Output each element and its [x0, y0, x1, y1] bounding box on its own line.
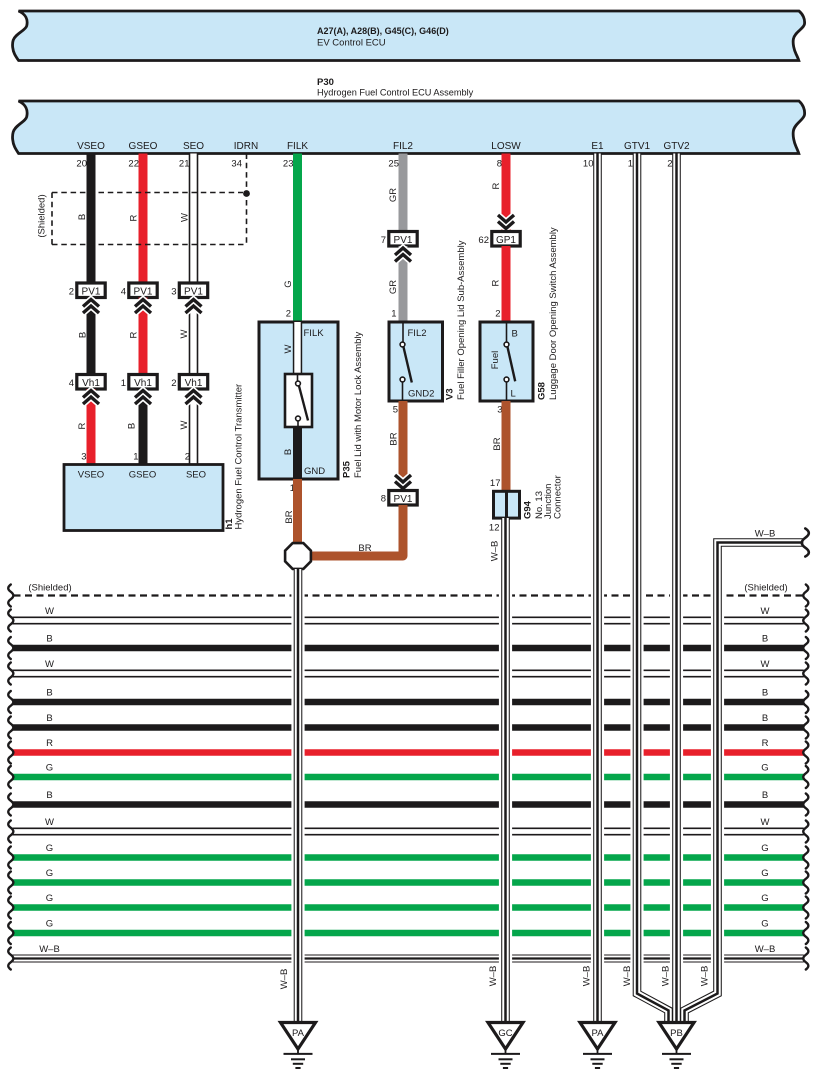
ground PA [580, 1023, 615, 1069]
svg-text:21: 21 [179, 159, 190, 170]
svg-text:GSEO: GSEO [129, 141, 158, 152]
bus wire W at y=831.5 [13, 828, 804, 836]
shield chevrons above PV1 8 [395, 482, 411, 489]
white gaps where vertical wires cross bus [291, 589, 724, 965]
svg-text:R: R [46, 738, 53, 749]
svg-text:LOSW: LOSW [491, 141, 521, 152]
svg-text:E1: E1 [591, 141, 604, 152]
svg-text:P35: P35 [342, 460, 353, 478]
svg-text:VSEO: VSEO [77, 141, 105, 152]
svg-text:B: B [46, 688, 52, 699]
svg-text:20: 20 [76, 159, 87, 170]
bus wire G at y=933 [13, 930, 804, 937]
svg-text:3: 3 [171, 287, 176, 298]
svg-text:B: B [77, 214, 88, 220]
svg-text:P30: P30 [317, 77, 334, 88]
svg-text:(Shielded): (Shielded) [744, 583, 787, 594]
svg-text:2: 2 [171, 378, 176, 389]
svg-text:W: W [179, 329, 190, 338]
svg-text:B: B [127, 423, 138, 429]
svg-text:W–B: W–B [622, 966, 633, 987]
wire GSEO R from P30 pin 22 to PV1 [139, 154, 148, 284]
svg-text:W: W [179, 420, 190, 429]
ground PB [659, 1023, 694, 1069]
switch in P35 (motor lock) [285, 374, 312, 427]
wire VSEO R from Vh1 to h1 [87, 389, 96, 465]
svg-text:G: G [283, 280, 294, 287]
bus wire W-B at y=958.5 [13, 955, 804, 963]
svg-text:GR: GR [388, 188, 399, 202]
svg-text:V3: V3 [445, 388, 456, 400]
svg-text:22: 22 [128, 159, 139, 170]
svg-text:BR: BR [389, 432, 400, 445]
svg-text:G: G [46, 843, 53, 854]
svg-text:W–B: W–B [488, 966, 499, 987]
svg-text:R: R [77, 422, 88, 429]
ground PA [281, 1023, 316, 1069]
ground GC [488, 1023, 523, 1069]
connector PV1 (FIL2) [389, 232, 417, 247]
svg-text:GR: GR [388, 280, 399, 294]
svg-text:GP1: GP1 [496, 235, 516, 246]
break marks left side of bus [8, 585, 13, 970]
svg-text:1: 1 [133, 452, 138, 463]
svg-text:G: G [761, 893, 768, 904]
connector PV1 (GSEO) [129, 283, 157, 298]
bus wire B at y=702 [13, 699, 804, 706]
connector PV1 (BR) [389, 491, 417, 506]
wire W-B from P30 E1 pin 10 to ground PA [593, 154, 602, 1024]
svg-text:W: W [283, 344, 294, 353]
svg-text:23: 23 [283, 159, 294, 170]
ECU banner A27/A28/G45/G46 EV Control ECU [13, 11, 805, 61]
svg-text:8: 8 [497, 159, 502, 170]
connector Vh1 (SEO) [179, 375, 207, 390]
svg-text:R: R [129, 331, 140, 338]
svg-text:A27(A), A28(B), G45(C), G46(D): A27(A), A28(B), G45(C), G46(D) [317, 26, 449, 36]
wire B inside P35 from switch to GND [293, 427, 302, 479]
svg-text:FILK: FILK [304, 328, 325, 339]
shield chevrons below PV1 boxes [83, 300, 99, 307]
svg-text:G: G [761, 763, 768, 774]
wire GSEO B from Vh1 to h1 [139, 389, 148, 465]
svg-text:L: L [511, 389, 516, 400]
svg-text:G58: G58 [537, 382, 548, 400]
wire FIL2 GR from P30 pin 25 to PV1 [399, 154, 408, 232]
bus wire W at y=620.5 [13, 617, 804, 625]
svg-text:2: 2 [667, 159, 672, 170]
svg-text:2: 2 [286, 309, 291, 320]
svg-text:GSEO: GSEO [129, 470, 156, 481]
svg-text:34: 34 [231, 159, 242, 170]
svg-text:PA: PA [292, 1028, 305, 1039]
svg-text:B: B [78, 332, 89, 338]
bus wire G at y=857.5 [13, 854, 804, 861]
wire SEO W from PV1 to Vh1 [189, 298, 199, 375]
svg-text:2: 2 [185, 452, 190, 463]
wire LOSW R from P30 pin 8 to GP1 [502, 154, 511, 215]
bus wire B at y=804.5 [13, 801, 804, 808]
svg-text:Hydrogen Fuel Control ECU Asse: Hydrogen Fuel Control ECU Assembly [317, 88, 474, 98]
svg-text:GND2: GND2 [408, 389, 434, 400]
svg-text:Fuel Lid with Motor Lock Assem: Fuel Lid with Motor Lock Assembly [353, 331, 364, 478]
svg-text:PA: PA [592, 1028, 605, 1039]
svg-text:62: 62 [478, 235, 489, 246]
svg-text:12: 12 [489, 523, 500, 534]
svg-text:W–B: W–B [490, 541, 501, 562]
junction node octagon splice [285, 543, 311, 569]
svg-text:W: W [180, 213, 191, 222]
svg-text:1: 1 [391, 309, 396, 320]
svg-text:(Shielded): (Shielded) [28, 583, 71, 594]
wire W-B from right harness to ground PB [685, 543, 804, 1024]
wire W-B from splice to ground PA [294, 569, 303, 1023]
bus wire R at y=752.5 [13, 749, 804, 756]
wire FIL2 GR from PV1 to V3 [399, 246, 408, 322]
svg-text:W–B: W–B [755, 944, 776, 955]
svg-text:G94: G94 [523, 500, 534, 519]
svg-text:3: 3 [81, 452, 86, 463]
wire LOSW R from GP1 to G58 [502, 246, 511, 322]
svg-text:PB: PB [670, 1028, 683, 1039]
wire W-B from P30 GTV2 pin 2 to ground PB [672, 154, 681, 1024]
bus wire B at y=727.5 [13, 724, 804, 731]
bus wire W at y=673.5 [13, 670, 804, 678]
svg-text:R: R [491, 279, 502, 286]
wire SEO W from Vh1 to h1 [189, 389, 199, 465]
svg-text:10: 10 [583, 159, 594, 170]
wire FILK G from P30 pin 23 to P35 [293, 154, 302, 323]
shield chevrons below Vh1 boxes [83, 391, 99, 398]
svg-text:FIL2: FIL2 [393, 141, 413, 152]
svg-text:B: B [46, 790, 52, 801]
svg-text:GND: GND [304, 466, 325, 477]
shield chevrons above GP1 [502, 214, 511, 232]
svg-text:G: G [46, 893, 53, 904]
svg-text:1: 1 [628, 159, 633, 170]
connector GP1 [492, 232, 520, 247]
component P35 Fuel Lid with Motor Lock Assembly [259, 322, 338, 479]
component V3 Fuel Filler Opening Lid Sub-Assembly [389, 322, 443, 401]
wire VSEO B from P30 pin 20 to PV1 [87, 154, 96, 284]
wire SEO W from P30 pin 21 to PV1 [189, 154, 199, 284]
wire W inside P35 [293, 322, 302, 378]
wire VSEO B from PV1 to Vh1 [87, 298, 96, 375]
wire W-B from P30 GTV1 pin 1 to ground PB [637, 154, 669, 1024]
svg-text:B: B [512, 329, 518, 340]
svg-text:2: 2 [69, 287, 74, 298]
svg-text:G: G [46, 763, 53, 774]
connector Vh1 (GSEO) [129, 375, 157, 390]
svg-text:W–B: W–B [755, 529, 776, 540]
svg-text:1: 1 [121, 378, 126, 389]
svg-text:SEO: SEO [183, 141, 204, 152]
label P30 Hydrogen Fuel Control ECU Assembly [317, 77, 474, 98]
svg-text:Fuel: Fuel [490, 351, 501, 369]
svg-text:Fuel Filler Opening Lid Sub-As: Fuel Filler Opening Lid Sub-Assembly [456, 240, 467, 400]
svg-text:GTV1: GTV1 [624, 141, 651, 152]
connector band P30 [13, 101, 805, 154]
wire BR from V3 to PV1 [399, 401, 408, 491]
svg-text:W: W [45, 606, 54, 617]
wire BR from P35 GND to junction node [293, 479, 302, 544]
wire BR from PV1 to junction node [310, 505, 403, 556]
svg-text:17: 17 [490, 478, 501, 489]
bus wire G at y=777 [13, 774, 804, 781]
wire W-B from G94 pin 12 to ground GC [501, 518, 510, 1023]
svg-text:R: R [762, 738, 769, 749]
svg-text:G: G [761, 868, 768, 879]
svg-text:GC: GC [498, 1028, 512, 1039]
svg-text:B: B [46, 634, 52, 645]
wire IDRN dashed drain [246, 154, 248, 245]
svg-text:EV Control ECU: EV Control ECU [317, 38, 386, 49]
connector PV1 (SEO) [179, 283, 207, 298]
svg-text:W: W [761, 817, 770, 828]
component h1 Hydrogen Fuel Control Transmitter [64, 465, 223, 531]
bus wire G at y=882.5 [13, 879, 804, 886]
pin numbers at P30 connector [76, 159, 672, 170]
bus wire B at y=648 [13, 645, 804, 652]
svg-text:5: 5 [393, 405, 398, 416]
connector PV1 (VSEO) [77, 283, 105, 298]
svg-text:8: 8 [381, 494, 386, 505]
svg-text:B: B [762, 713, 768, 724]
svg-text:W: W [45, 817, 54, 828]
svg-text:7: 7 [381, 235, 386, 246]
break marks right side of bus [803, 585, 808, 970]
svg-text:G: G [761, 843, 768, 854]
svg-text:R: R [491, 182, 502, 189]
svg-text:G: G [46, 919, 53, 930]
svg-text:SEO: SEO [186, 470, 206, 481]
svg-text:25: 25 [388, 159, 399, 170]
break mark right W-B wire [802, 529, 809, 557]
svg-text:FIL2: FIL2 [408, 328, 427, 339]
svg-text:W: W [761, 659, 770, 670]
svg-text:W–B: W–B [39, 944, 60, 955]
svg-text:W–B: W–B [582, 966, 593, 987]
node shield drain dot [243, 190, 250, 197]
svg-text:BR: BR [358, 543, 371, 554]
svg-text:4: 4 [121, 287, 126, 298]
svg-text:B: B [762, 634, 768, 645]
svg-text:B: B [46, 713, 52, 724]
wire BR from G58 to G94 [502, 401, 511, 491]
svg-text:B: B [762, 688, 768, 699]
svg-text:W–B: W–B [700, 966, 711, 987]
shield box around VSEO GSEO SEO wires [52, 193, 247, 245]
connector G94 No.13 junction connector [494, 491, 520, 518]
svg-text:Hydrogen Fuel Control Transmit: Hydrogen Fuel Control Transmitter [234, 384, 245, 530]
svg-text:G: G [46, 868, 53, 879]
svg-text:FILK: FILK [287, 141, 308, 152]
svg-text:IDRN: IDRN [234, 141, 258, 152]
svg-text:(Shielded): (Shielded) [37, 194, 48, 237]
component G58 Luggage Door Opening Switch Assembly [480, 322, 533, 401]
connector Vh1 (VSEO) [77, 375, 105, 390]
svg-text:G: G [761, 919, 768, 930]
svg-text:BR: BR [284, 510, 295, 523]
svg-text:W–B: W–B [661, 966, 672, 987]
svg-text:GTV2: GTV2 [663, 141, 690, 152]
svg-text:B: B [762, 790, 768, 801]
svg-text:B: B [283, 449, 294, 455]
svg-text:W–B: W–B [279, 969, 290, 990]
svg-text:Connector: Connector [553, 475, 564, 519]
svg-text:VSEO: VSEO [78, 470, 104, 481]
svg-text:Luggage Door Opening Switch As: Luggage Door Opening Switch Assembly [548, 227, 559, 400]
svg-text:BR: BR [492, 437, 503, 450]
svg-text:PV1: PV1 [394, 494, 413, 505]
svg-text:4: 4 [69, 378, 74, 389]
svg-text:2: 2 [495, 309, 500, 320]
shield dashed line of harness bus [14, 594, 804, 596]
wire GSEO R from PV1 to Vh1 [139, 298, 148, 375]
svg-text:W: W [45, 659, 54, 670]
bus wire G at y=907.5 [13, 904, 804, 911]
svg-text:W: W [761, 606, 770, 617]
svg-text:R: R [129, 214, 140, 221]
